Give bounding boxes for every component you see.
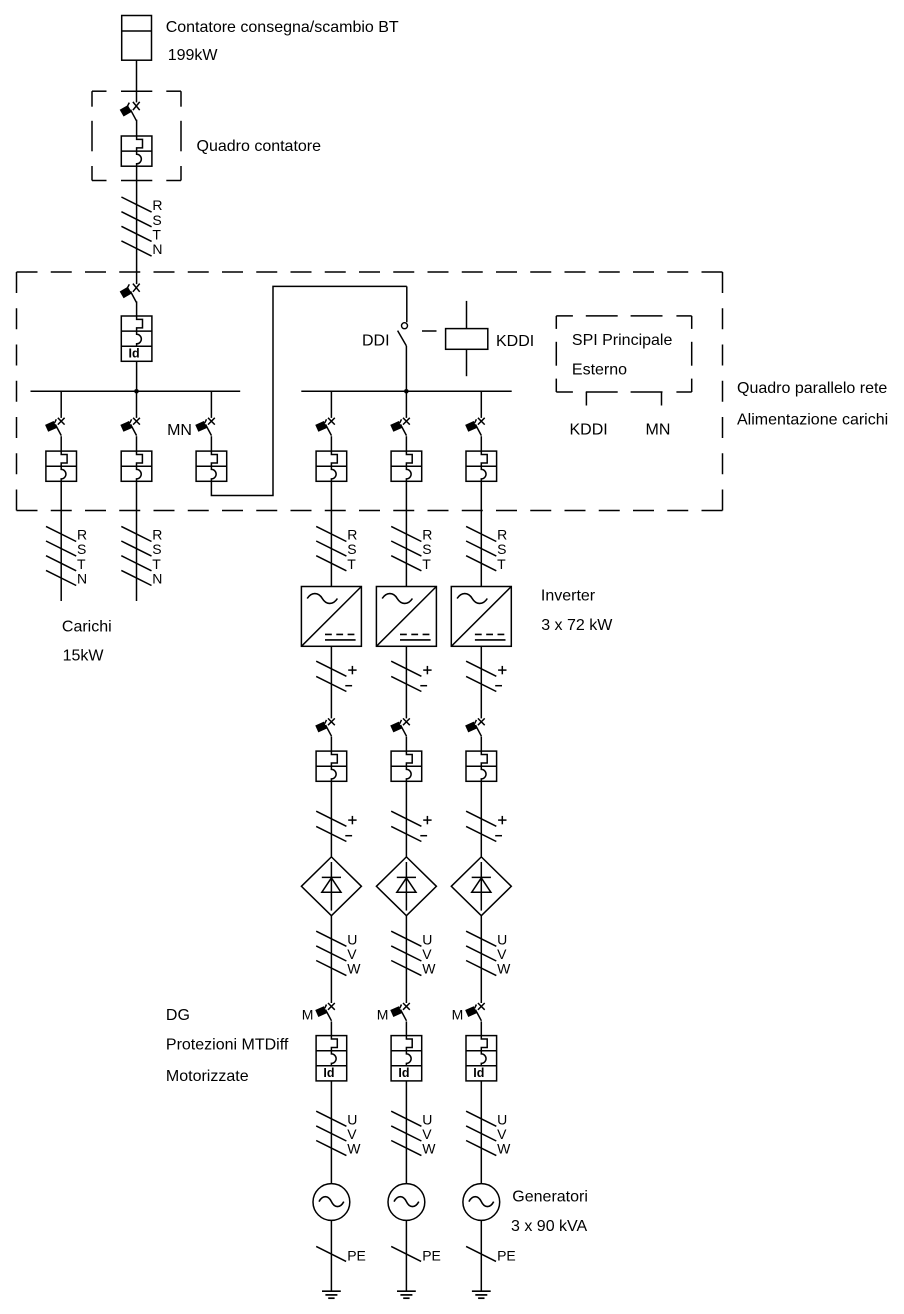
DC slashes +/- column 2 lower <box>391 811 431 841</box>
svg-text:T: T <box>152 227 161 243</box>
branch breaker carichi 2 <box>120 418 140 436</box>
svg-text:W: W <box>422 1141 436 1157</box>
inverter U2 (DC/AC) <box>376 587 436 647</box>
trip unit (thermal+magnetic) carichi 1 <box>46 451 77 481</box>
svg-text:V: V <box>347 1126 357 1142</box>
svg-text:W: W <box>497 961 511 977</box>
DC slashes +/- inverter 3 upper <box>466 661 506 691</box>
wire main to bus <box>136 361 138 391</box>
svg-text:PE: PE <box>347 1247 366 1263</box>
phase slashes U V W column 3 upper <box>466 931 511 977</box>
disconnect switch DDI <box>398 286 408 391</box>
wire DG breaker to trip unit 2 <box>405 1021 407 1035</box>
DC breaker inverter 1 <box>315 718 335 736</box>
bracket wire to MN <box>661 392 663 406</box>
phase slashes R S T N carichi 2 <box>121 526 162 586</box>
svg-text:S: S <box>347 541 356 557</box>
wire to generator 2 <box>405 1081 407 1184</box>
label Generatori <box>512 1188 588 1205</box>
PE slash 2 <box>391 1246 421 1261</box>
svg-text:Quadro parallelo rete: Quadro parallelo rete <box>737 380 887 397</box>
svg-text:Id: Id <box>323 1066 334 1080</box>
svg-text:T: T <box>422 556 431 572</box>
generator G1 <box>313 1184 350 1221</box>
wire DC breaker to fuse box 1 <box>330 737 332 752</box>
wire to blocking diode 3 <box>480 781 482 857</box>
svg-text:Carichi: Carichi <box>62 619 112 636</box>
svg-text:W: W <box>497 1141 511 1157</box>
trip unit (thermal+magnetic) in quadro contatore <box>121 136 152 166</box>
svg-text:Contatore consegna/scambio BT: Contatore consegna/scambio BT <box>166 19 399 36</box>
svg-text:N: N <box>152 571 162 587</box>
svg-text:Generatori: Generatori <box>512 1188 588 1205</box>
svg-text:Inverter: Inverter <box>541 587 596 604</box>
inverter U1 (DC/AC) <box>301 587 361 647</box>
wire bus to breaker carichi 2 <box>136 391 138 418</box>
wire MN branch to DDI <box>211 286 406 495</box>
label M (motorized) 1 <box>302 1007 314 1023</box>
wire DC breaker to fuse box 3 <box>480 737 482 752</box>
svg-text:PE: PE <box>497 1247 516 1263</box>
label 3 x 90 kVA <box>511 1218 588 1235</box>
svg-text:R: R <box>347 527 357 543</box>
label MN <box>167 422 192 439</box>
dashed enclosure Quadro contatore <box>92 91 181 180</box>
node main-bus junction <box>134 389 139 394</box>
label 3 x 72 kW <box>541 617 613 634</box>
circuit breaker Q0 (quadro contatore) <box>120 102 140 121</box>
kWh meter M1 Contatore consegna/scambio BT <box>122 16 152 61</box>
wire diode to DG breaker 3 <box>480 916 482 1003</box>
trip unit MTDiff (thermal+magnetic+Id) 1 <box>316 1036 347 1081</box>
svg-text:U: U <box>422 931 432 947</box>
svg-text:Protezioni MTDiff: Protezioni MTDiff <box>166 1036 289 1053</box>
svg-text:T: T <box>497 556 506 572</box>
wire to blocking diode 1 <box>330 781 332 857</box>
DC slashes +/- inverter 2 upper <box>391 661 431 691</box>
phase slashes R S T N (incoming line) <box>121 197 162 257</box>
svg-text:Esterno: Esterno <box>572 362 627 379</box>
dashed box SPI Principale Esterno <box>556 316 691 392</box>
svg-text:PE: PE <box>422 1247 441 1263</box>
svg-text:DG: DG <box>166 1007 190 1024</box>
svg-text:R: R <box>497 527 507 543</box>
trip unit (thermal+magnetic) DC 2 <box>391 751 422 781</box>
trip unit (thermal+magnetic) inverter 3 <box>466 451 497 481</box>
svg-text:KDDI: KDDI <box>569 421 607 438</box>
label Motorizzate <box>166 1068 249 1085</box>
svg-text:W: W <box>422 961 436 977</box>
label 15kW <box>63 647 105 664</box>
label Carichi <box>62 619 112 636</box>
trip unit (thermal+magnetic) inverter 1 <box>316 451 347 481</box>
svg-text:MN: MN <box>167 422 192 439</box>
DC slashes +/- inverter 1 upper <box>316 661 356 691</box>
svg-text:R: R <box>152 197 162 213</box>
wire to generator 3 <box>480 1081 482 1184</box>
svg-text:U: U <box>347 931 357 947</box>
PE slash 1 <box>316 1246 346 1261</box>
label DDI <box>362 333 390 350</box>
label KDDI (SPI output) <box>569 421 607 438</box>
svg-text:U: U <box>347 1111 357 1127</box>
wire bus to breaker inverter 1 <box>330 391 332 418</box>
branch breaker inverter 3 <box>465 418 485 436</box>
motorized DG breaker 2 <box>390 1003 410 1021</box>
svg-text:R: R <box>422 527 432 543</box>
wire breaker to trip unit MN <box>210 436 212 451</box>
ground (earth) 2 <box>397 1291 416 1298</box>
wire to generator 1 <box>330 1081 332 1184</box>
svg-text:T: T <box>152 556 161 572</box>
PE slash 3 <box>466 1246 496 1261</box>
wire carichi 1 down <box>60 481 62 601</box>
wire generator to earth 2 <box>405 1220 407 1291</box>
wire DG breaker to trip unit 3 <box>480 1021 482 1035</box>
DC slashes +/- column 1 lower <box>316 811 356 841</box>
wire breaker to trip unit inverter 2 <box>405 436 407 451</box>
svg-text:S: S <box>497 541 506 557</box>
left bus bar <box>31 390 241 392</box>
label KDDI (coil) <box>496 333 534 350</box>
trip unit (thermal+magnetic) DC 3 <box>466 751 497 781</box>
svg-text:Alimentazione carichi: Alimentazione carichi <box>737 412 888 429</box>
label Quadro contatore <box>197 138 322 155</box>
wire bus to breaker MN <box>210 391 212 418</box>
svg-text:V: V <box>497 946 507 962</box>
branch breaker carichi 1 <box>45 418 65 436</box>
label 199kW <box>168 47 219 64</box>
label Inverter <box>541 587 596 604</box>
ground (earth) 1 <box>322 1291 341 1298</box>
label DG <box>166 1007 190 1024</box>
label M (motorized) 2 <box>377 1007 389 1023</box>
svg-text:Id: Id <box>398 1066 409 1080</box>
label PE 2 <box>422 1247 441 1263</box>
bracket wire to KDDI <box>585 392 587 406</box>
wire DG breaker to trip unit 1 <box>330 1021 332 1035</box>
wire quadro contatore down <box>136 166 138 284</box>
wire breaker to trip unit carichi 1 <box>60 436 62 451</box>
trip unit (thermal+magnetic) MN <box>196 451 227 481</box>
svg-text:S: S <box>77 541 86 557</box>
wire carichi 2 down <box>136 481 138 601</box>
svg-text:V: V <box>422 946 432 962</box>
wire diode to DG breaker 2 <box>405 916 407 1003</box>
trip unit MTDiff (thermal+magnetic+Id) 2 <box>391 1036 422 1081</box>
DC breaker inverter 3 <box>465 718 485 736</box>
wire to inverter 3 <box>480 481 482 586</box>
phase slashes U V W column 2 lower <box>391 1111 436 1157</box>
wire diode to DG breaker 1 <box>330 916 332 1003</box>
wire to blocking diode 2 <box>405 781 407 857</box>
generator G3 <box>463 1184 500 1221</box>
main circuit breaker QG <box>120 284 140 303</box>
trip unit (thermal+magnetic+Id) main <box>121 316 152 361</box>
wire meter to quadro contatore <box>136 60 138 102</box>
svg-text:S: S <box>422 541 431 557</box>
phase slashes U V W column 3 lower <box>466 1111 511 1157</box>
wire to inverter 1 <box>330 481 332 586</box>
svg-text:U: U <box>497 931 507 947</box>
phase slashes U V W column 1 upper <box>316 931 361 977</box>
wire generator to earth 1 <box>330 1220 332 1291</box>
inverter U3 (DC/AC) <box>451 587 511 647</box>
blocking diode D1 <box>301 857 361 916</box>
wire to inverter 2 <box>405 481 407 586</box>
wire inverter 2 DC side <box>405 646 407 718</box>
dashed enclosure Quadro parallelo rete <box>17 272 723 511</box>
trip unit (thermal+magnetic) carichi 2 <box>121 451 152 481</box>
label PE 3 <box>497 1247 516 1263</box>
DC slashes +/- column 3 lower <box>466 811 506 841</box>
phase slashes R S T inverter 3 <box>466 526 507 572</box>
node DDI-bus junction <box>404 389 409 394</box>
svg-text:S: S <box>152 541 161 557</box>
DC breaker inverter 2 <box>390 718 410 736</box>
branch breaker inverter 1 <box>315 418 335 436</box>
svg-text:199kW: 199kW <box>168 47 219 64</box>
svg-text:DDI: DDI <box>362 333 390 350</box>
svg-text:V: V <box>422 1126 432 1142</box>
branch breaker inverter 2 <box>390 418 410 436</box>
label Contatore consegna/scambio BT <box>166 19 399 36</box>
wire inverter 1 DC side <box>330 646 332 718</box>
trip unit MTDiff (thermal+magnetic+Id) 3 <box>466 1036 497 1081</box>
wire bus to breaker inverter 2 <box>405 391 407 418</box>
wire bus to breaker inverter 3 <box>480 391 482 418</box>
trip unit (thermal+magnetic) DC 1 <box>316 751 347 781</box>
label Alimentazione carichi <box>737 412 888 429</box>
wire generator to earth 3 <box>480 1220 482 1291</box>
motorized DG breaker 1 <box>315 1003 335 1021</box>
trip unit (thermal+magnetic) inverter 2 <box>391 451 422 481</box>
wire breaker to trip unit carichi 2 <box>136 436 138 451</box>
svg-text:N: N <box>152 241 162 257</box>
svg-text:V: V <box>497 1126 507 1142</box>
svg-text:W: W <box>347 1141 361 1157</box>
svg-text:Id: Id <box>473 1066 484 1080</box>
label Protezioni MTDiff <box>166 1036 289 1053</box>
wire breaker to trip unit inverter 3 <box>480 436 482 451</box>
svg-text:U: U <box>422 1111 432 1127</box>
label SPI Principale <box>572 332 673 349</box>
blocking diode D3 <box>451 857 511 916</box>
svg-text:Id: Id <box>129 347 140 361</box>
blocking diode D2 <box>376 857 436 916</box>
svg-text:R: R <box>77 527 87 543</box>
phase slashes U V W column 2 upper <box>391 931 436 977</box>
wire inverter 3 DC side <box>480 646 482 718</box>
svg-text:M: M <box>377 1007 389 1023</box>
svg-text:Quadro contatore: Quadro contatore <box>197 138 322 155</box>
wire DC breaker to fuse box 2 <box>405 737 407 752</box>
svg-text:3 x 72 kW: 3 x 72 kW <box>541 617 613 634</box>
motorized DG breaker 3 <box>465 1003 485 1021</box>
svg-text:KDDI: KDDI <box>496 333 534 350</box>
label Quadro parallelo rete <box>737 380 887 397</box>
svg-text:MN: MN <box>646 421 671 438</box>
svg-text:U: U <box>497 1111 507 1127</box>
label M (motorized) 3 <box>452 1007 464 1023</box>
svg-text:Motorizzate: Motorizzate <box>166 1068 249 1085</box>
svg-text:SPI Principale: SPI Principale <box>572 332 673 349</box>
phase slashes U V W column 1 lower <box>316 1111 361 1157</box>
ground (earth) 3 <box>472 1291 491 1298</box>
branch breaker MN <box>195 418 215 436</box>
link dash DDI-KDDI <box>422 330 437 332</box>
svg-text:V: V <box>347 946 357 962</box>
svg-text:T: T <box>347 556 356 572</box>
phase slashes R S T N carichi 1 <box>46 526 87 586</box>
svg-text:S: S <box>152 212 161 228</box>
wire bus to breaker carichi 1 <box>60 391 62 418</box>
label PE 1 <box>347 1247 366 1263</box>
svg-text:W: W <box>347 961 361 977</box>
label Esterno <box>572 362 627 379</box>
generator G2 <box>388 1184 425 1221</box>
svg-text:N: N <box>77 571 87 587</box>
svg-text:R: R <box>152 527 162 543</box>
wire breaker to trip unit inverter 1 <box>330 436 332 451</box>
svg-text:M: M <box>452 1007 464 1023</box>
wire QG to trip unit <box>136 301 138 316</box>
phase slashes R S T inverter 2 <box>391 526 432 572</box>
wire Q0 to trip unit <box>136 120 138 136</box>
svg-text:15kW: 15kW <box>63 647 105 664</box>
svg-text:M: M <box>302 1007 314 1023</box>
svg-text:3 x 90 kVA: 3 x 90 kVA <box>511 1218 588 1235</box>
label MN (SPI output) <box>646 421 671 438</box>
right bus bar <box>301 390 511 392</box>
phase slashes R S T inverter 1 <box>316 526 357 572</box>
svg-text:T: T <box>77 556 86 572</box>
contactor coil KDDI <box>446 301 488 376</box>
